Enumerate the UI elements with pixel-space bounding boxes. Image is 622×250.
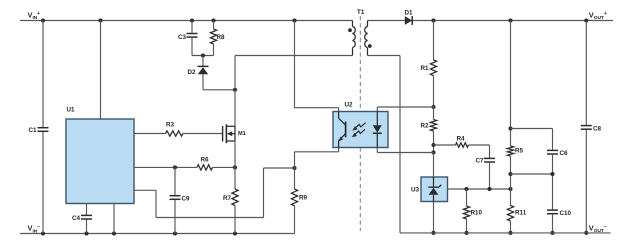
wire R3 to M1 gate [183,133,223,135]
wire U1 VCC pin through C4 [86,204,88,234]
node junction R5 top [508,18,512,22]
wire primary bottom to drain [235,55,353,57]
label VIN- [28,224,41,235]
wire secondary return [368,56,401,233]
wire snubber to D2 [202,56,204,67]
wire LED cathode route [377,148,433,153]
node junction C3 top [190,18,194,22]
wire C3 column top [191,21,193,34]
node junction U1 VIN pin [98,18,102,22]
wire C3 bottom [191,37,193,55]
capacitor C7 [475,158,495,165]
node junction D2 / drain [233,88,237,92]
wire C7 bottom [489,162,491,189]
capacitor C6 [547,150,568,157]
svg-text:C10: C10 [560,210,572,217]
node junction LED cathode [431,150,435,154]
node bottom junction R11 [508,231,512,235]
svg-text:R4: R4 [457,136,466,143]
wire R8 column top [213,21,215,30]
wire top rail VIN+ side [20,20,353,22]
svg-text:D1: D1 [405,10,414,17]
node junction R1 top [431,18,435,22]
node junction C6 top tap [508,126,512,130]
capacitor C3 [178,34,198,41]
op-amp U3 shunt reference block [421,177,448,202]
resistor R5 [507,146,523,156]
node junction R10 top [464,187,468,191]
wire C10 to rail [552,214,554,233]
node T1 primary phase dot [348,28,352,32]
svg-text:U2: U2 [345,102,354,109]
capacitor C8 [581,125,602,132]
wire R7 to bottom rail [234,206,236,234]
op-amp U1 controller block [66,119,134,204]
label VOUT+ [589,10,607,21]
node bottom junction C10 [550,231,554,235]
resistor R3 [166,122,184,137]
wire R10 to rail [466,219,468,233]
wire R11 to rail [510,221,512,233]
svg-text:R8: R8 [217,34,226,41]
svg-text:R3: R3 [166,122,175,129]
resistor R4 [456,136,469,148]
svg-text:R11: R11 [515,209,527,216]
wire R1 to junction [433,76,435,108]
svg-text:R7: R7 [223,195,232,202]
diode D1 [405,10,414,25]
node bottom junction C4 [84,231,88,235]
wire R5 bottom [510,156,512,206]
wire R4 from junction [434,144,456,146]
node bottom junction R7 [233,231,237,235]
node junction R8 top [211,18,215,22]
wire U3 ref pin [448,188,511,190]
node junction U2 collector rail tap [292,18,296,22]
diode D2 [187,66,208,75]
resistor R11 [507,206,526,222]
wire U2 collector from rail [295,21,339,112]
resistor R9 [291,168,307,206]
resistor R2 [420,120,436,132]
wire LED anode route [377,107,433,112]
wire U1 VIN pin from top rail [100,21,102,120]
label T1 [357,9,365,16]
node bottom junction C9 [173,231,177,235]
svg-text:R10: R10 [471,209,483,216]
wire U1 pin2 to R6 [134,166,197,168]
svg-text:R2: R2 [420,123,429,130]
node junction C8 top [584,18,588,22]
svg-text:T1: T1 [357,9,365,16]
wire to U3 cathode [433,153,435,178]
wire C1 column [42,21,44,234]
wire R2 bottom [433,131,435,153]
node junction C7 bottom [487,187,491,191]
node junction M1 source / R7 [233,165,237,169]
node junction R9 top [292,166,296,170]
wire R9 to bottom rail corner [294,206,296,234]
wire U2 light arrows [352,123,366,138]
svg-text:C8: C8 [593,125,602,132]
op-amp U2 optocoupler block [333,112,388,148]
node junction C9 top [173,165,177,169]
node junction R4 tap [431,143,435,147]
capacitor C10 [547,210,572,217]
transistor U2 phototransistor [338,112,345,148]
wire R1 column [433,21,435,61]
wire R5 column top [510,21,512,147]
node junction R5 column ref [508,187,512,191]
svg-text:C3: C3 [178,34,187,41]
wire R2 top [433,107,435,120]
wire U1 GND pin to bottom rail [113,204,115,234]
label U1 [67,107,76,114]
svg-text:R1: R1 [420,65,429,72]
svg-text:D2: D2 [187,69,196,76]
label U2 [345,102,354,109]
node bottom junction U1 GND pin [112,231,116,235]
svg-text:C9: C9 [182,195,191,202]
wire U1 pin1 to R3 [134,133,166,135]
diode U3 zener symbol [428,177,441,202]
node junction C6/C10 mid [550,172,554,176]
transformer T1 primary winding [353,21,356,56]
svg-text:U3: U3 [411,187,420,194]
resistor R10 [463,189,482,219]
node junction C6 bottom tap [508,172,512,176]
transistor M1 [223,124,246,143]
transformer T1 secondary winding [365,21,368,56]
wire C3-R8 join [192,55,214,57]
wire drain column [234,56,236,127]
resistor R7 [223,167,238,205]
wire bottom rail VIN- side [20,233,295,235]
wire C9 column [174,167,176,233]
wire M1 source to junction [234,141,236,167]
capacitor C4 [72,215,92,222]
resistor R6 [197,157,213,170]
wire R4 to C7 [469,145,490,158]
wire C6 column [552,129,554,151]
wire D2 anode to switch node [203,74,235,90]
diode U2 LED [373,112,382,148]
wire C6 to C10 [552,154,554,210]
svg-text:C1: C1 [28,127,37,134]
svg-text:R5: R5 [515,148,524,155]
node junction R1/R2/LED anode [431,105,435,109]
node bottom junction C1 [41,231,45,235]
resistor R8 [210,29,225,44]
capacitor C1 [28,127,48,134]
wire bottom rail VOUT- side [400,232,611,234]
wire R9 top to U2 emitter [295,148,339,169]
label U3 [411,187,420,194]
wire R8 bottom [213,44,215,56]
wire C6 top link [511,128,553,130]
resistor R1 [420,60,436,76]
svg-text:R6: R6 [201,157,210,164]
label VOUT- [589,223,607,234]
node bottom junction R10 [464,231,468,235]
node junction snubber [201,53,205,57]
svg-text:U1: U1 [67,107,76,114]
wire U1 pin3 route [134,168,295,218]
svg-text:M1: M1 [238,131,246,137]
svg-text:C7: C7 [475,158,484,165]
node T1 secondary phase dot [368,44,372,48]
svg-text:R9: R9 [299,195,308,202]
wire U3 anode to rail [433,202,435,233]
node VIN+ junction C1 [41,18,45,22]
node bottom junction U3 [431,231,435,235]
wire top rail VOUT+ side [368,20,614,22]
capacitor C9 [170,195,191,202]
wire C8 column [585,21,587,233]
node bottom junction C8 [584,231,588,235]
wire R6 to M1 source node [213,166,236,168]
svg-text:C6: C6 [560,150,569,157]
wire C6 bottom link [511,173,553,175]
svg-text:C4: C4 [72,215,81,222]
label VIN+ [28,10,41,21]
wire isolation barrier dashed [359,16,361,231]
